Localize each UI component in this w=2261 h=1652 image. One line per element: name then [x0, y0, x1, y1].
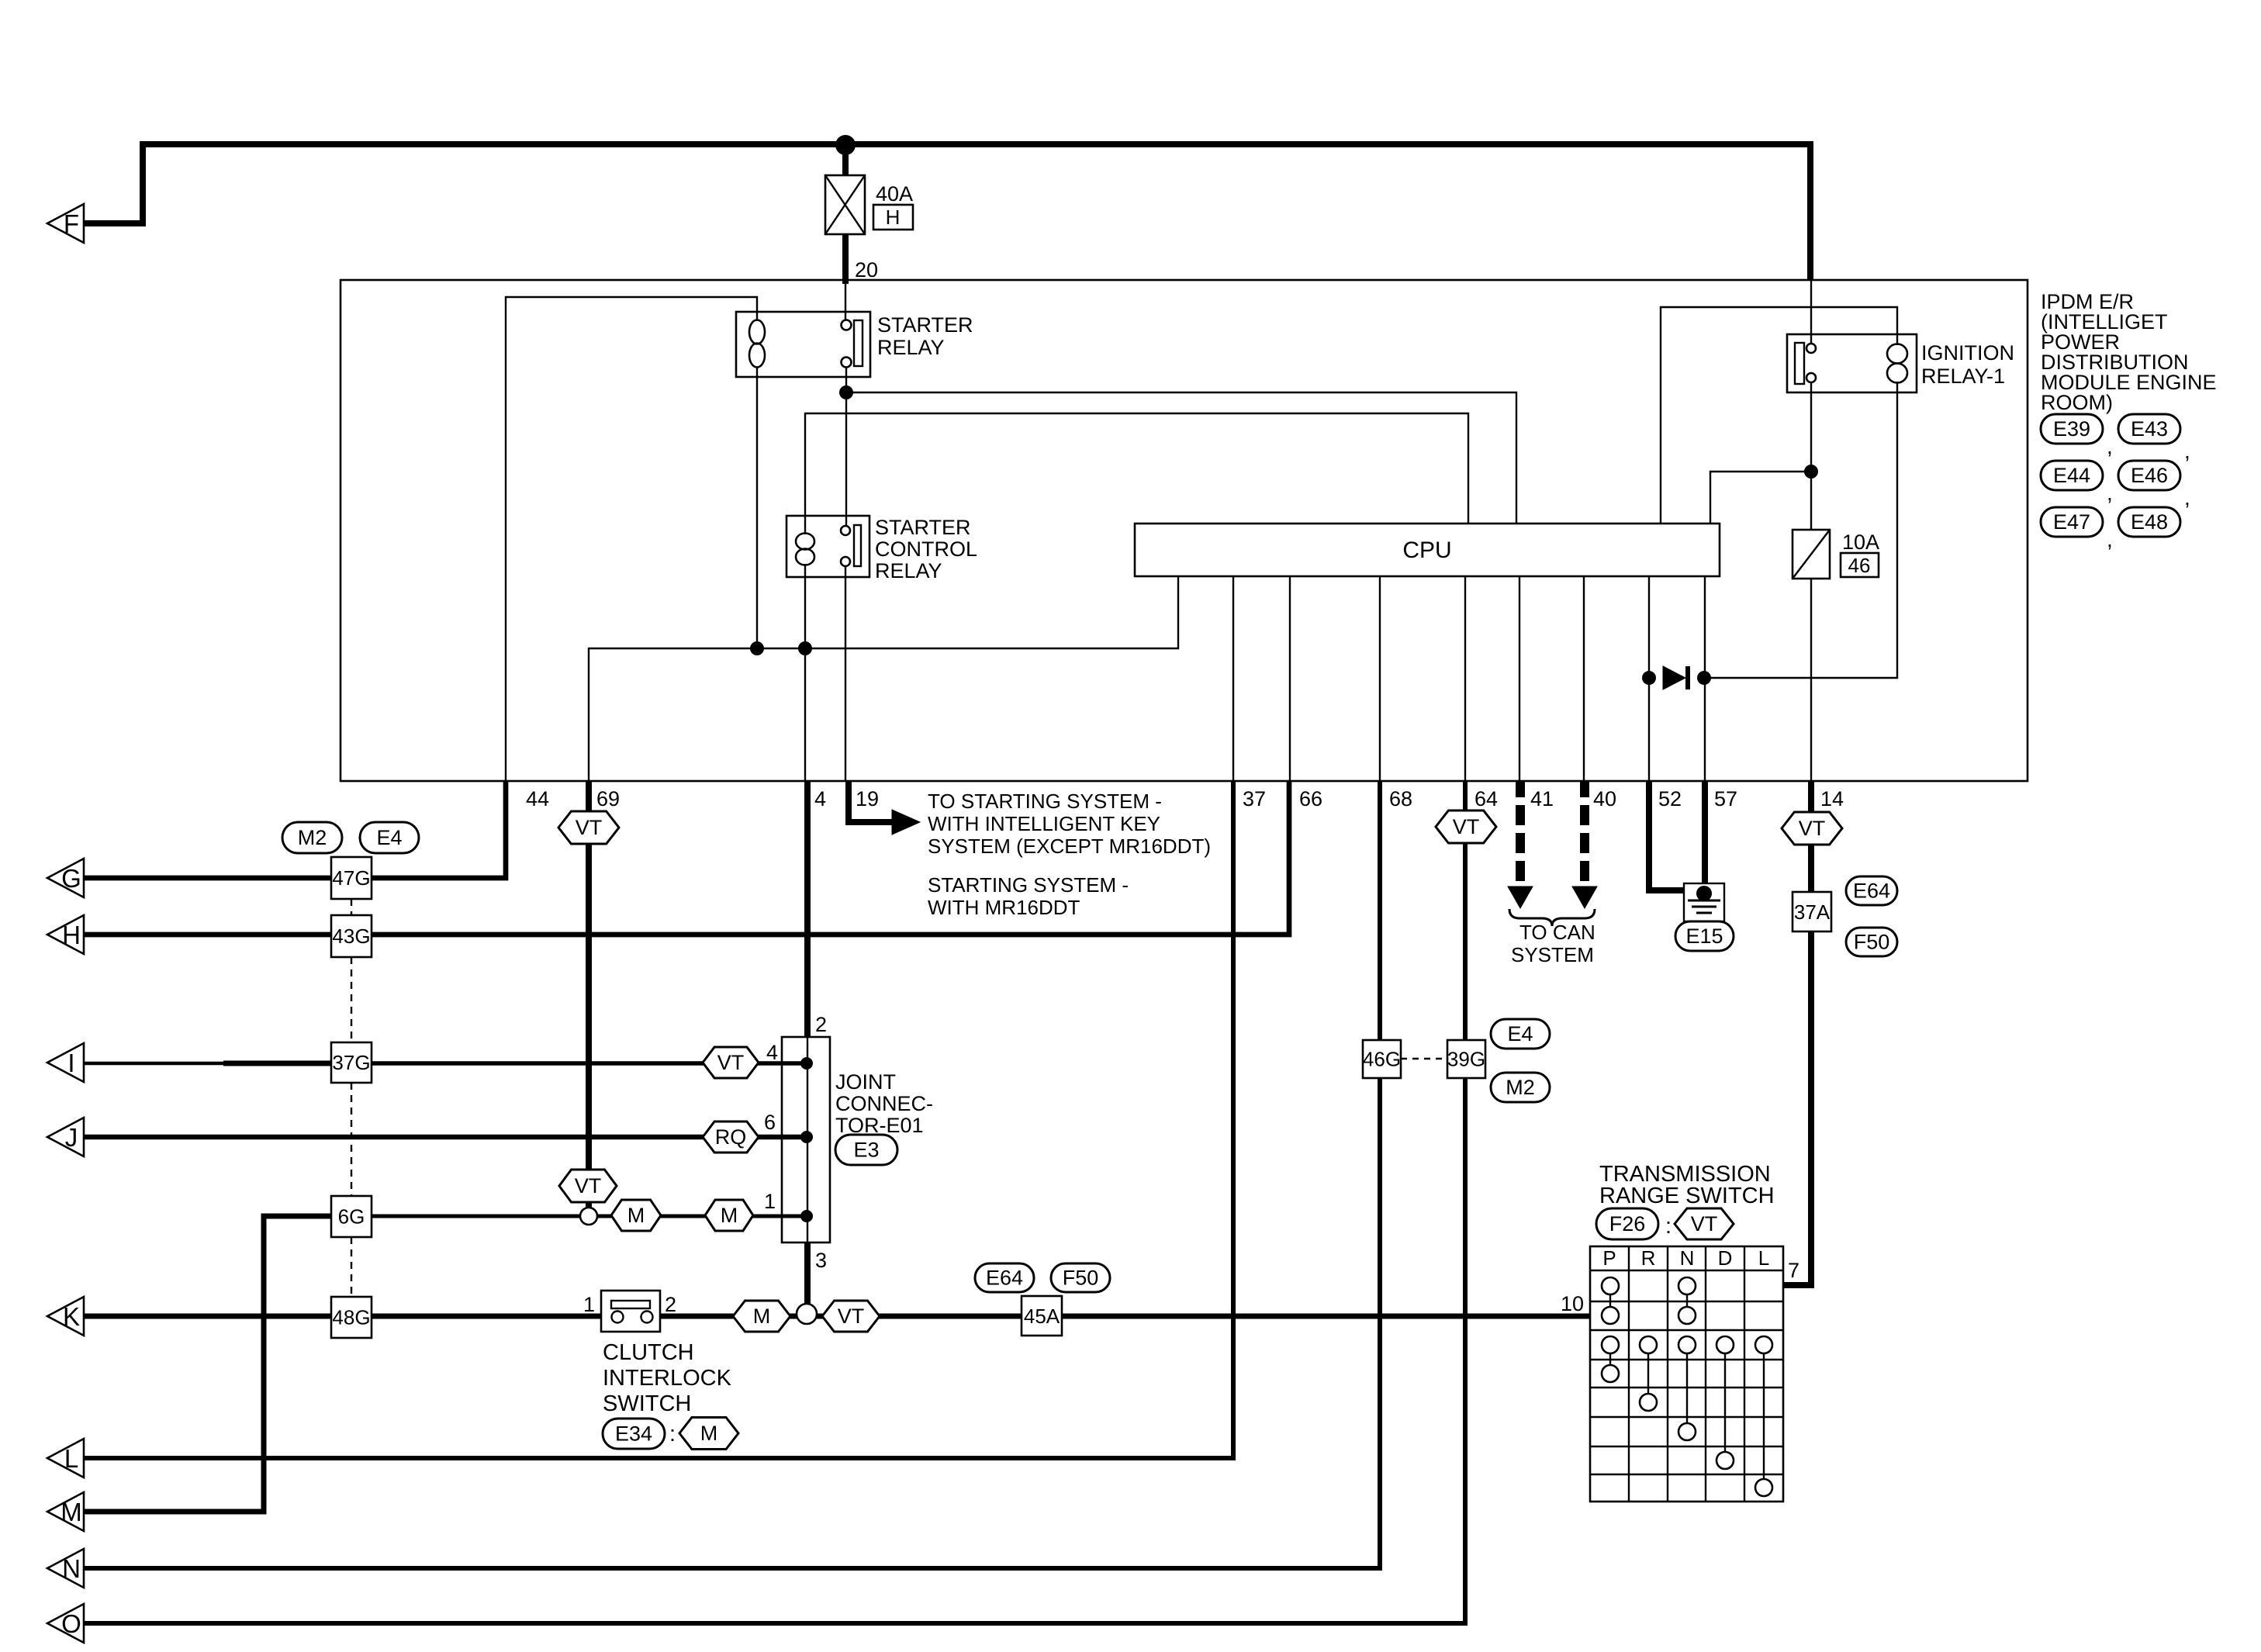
fuse 10A 46: [1793, 530, 1830, 579]
label joint connector pin 1: [764, 1190, 776, 1213]
svg-text:45A: 45A: [1024, 1305, 1060, 1328]
svg-text:STARTER: STARTER: [875, 516, 971, 539]
wire battery bus: [143, 141, 1813, 147]
wire pin 41 striped: [1516, 781, 1525, 889]
wire connector I to joint connector pin 4: [84, 1062, 807, 1066]
wire CPU pin 40 drop: [1583, 576, 1585, 781]
label clutch interlock switch: [603, 1340, 732, 1416]
wire dashed 43G-37G: [351, 957, 352, 1042]
label switch pin 7: [1788, 1259, 1799, 1282]
wire starter control relay coil to CPU: [805, 413, 1468, 534]
diode D1: [1663, 666, 1690, 689]
label starter control relay: [875, 516, 977, 582]
connector 37G: [331, 1042, 372, 1083]
svg-text:VT: VT: [1799, 817, 1826, 840]
label clutch switch pin 1: [583, 1293, 595, 1316]
fuse block 46: [1841, 553, 1879, 577]
wire pin 37 to connector L: [84, 781, 1233, 1458]
svg-text:R: R: [1641, 1246, 1656, 1270]
svg-text:39G: 39G: [1447, 1048, 1485, 1071]
wire code VT line I: [703, 1047, 759, 1078]
svg-text:L: L: [64, 1444, 78, 1473]
wire code VT pin 64: [1436, 810, 1496, 843]
ground E15 symbol: [1684, 883, 1724, 921]
svg-text:VT: VT: [838, 1305, 865, 1328]
arrow pin 41 to CAN: [1508, 886, 1533, 908]
svg-text:M: M: [721, 1204, 738, 1227]
wire pin 57 to ground: [1702, 781, 1708, 892]
label to CAN system: [1511, 921, 1595, 966]
svg-text:F50: F50: [1063, 1267, 1099, 1290]
wire dashed 46G-39G: [1401, 1058, 1447, 1059]
label grid D: [1718, 1246, 1733, 1270]
label joint connector pin 4: [766, 1041, 778, 1064]
svg-text:4: 4: [766, 1041, 778, 1064]
svg-text:7: 7: [1788, 1259, 1799, 1282]
svg-text:RQ: RQ: [715, 1125, 747, 1149]
svg-text:H: H: [62, 921, 81, 949]
label to starting system: [928, 790, 1211, 919]
svg-text:40: 40: [1593, 787, 1616, 810]
svg-text:6G: 6G: [338, 1205, 365, 1229]
label starter relay: [877, 313, 973, 359]
svg-text:TO CAN: TO CAN: [1519, 921, 1595, 944]
svg-text:E39: E39: [2053, 417, 2090, 441]
label grid N: [1680, 1246, 1695, 1270]
arrow to starting system: [892, 810, 920, 835]
connector arrow M: [47, 1492, 84, 1531]
connector arrow H: [47, 915, 84, 954]
wire ignition coil to diode: [1704, 382, 1897, 678]
wire code M line K: [733, 1301, 790, 1332]
svg-text:66: 66: [1299, 787, 1322, 810]
svg-text:SYSTEM: SYSTEM: [1511, 943, 1594, 966]
svg-text:68: 68: [1389, 787, 1412, 810]
wire code M line 6G b: [705, 1200, 753, 1231]
splice circle line 6G: [580, 1208, 597, 1225]
wire CPU to pin 69 run: [589, 576, 1178, 781]
wire dashed 47G-43G: [351, 899, 352, 915]
wire ignition node to CPU: [1710, 472, 1811, 524]
junction node coil-2: [798, 641, 812, 655]
wire fuse 10A to pin 14: [1810, 579, 1812, 781]
svg-text:41: 41: [1530, 787, 1554, 810]
svg-text:4: 4: [814, 787, 826, 810]
connector arrow J: [47, 1118, 84, 1156]
svg-text:STARTER: STARTER: [877, 313, 973, 337]
brace to CAN system: [1509, 909, 1595, 926]
svg-text:G: G: [61, 864, 81, 893]
label pin 40: [1593, 787, 1616, 810]
wire code VT above splice: [559, 1170, 617, 1202]
wire code RQ line J: [703, 1121, 759, 1153]
label clutch switch pin 2: [665, 1293, 676, 1316]
svg-text:E64: E64: [986, 1267, 1023, 1290]
svg-text:69: 69: [596, 787, 620, 810]
svg-text:VT: VT: [717, 1051, 745, 1074]
svg-text:VT: VT: [1691, 1212, 1718, 1236]
wire dashed 37G-6G: [351, 1083, 352, 1196]
svg-text:43G: 43G: [332, 924, 370, 948]
splice circle line K: [797, 1304, 817, 1324]
wire CPU pin 37 drop: [1232, 576, 1234, 781]
connector 43G: [331, 915, 372, 957]
svg-text:48G: 48G: [332, 1306, 370, 1329]
wire pin 14 to transmission range switch: [1783, 781, 1811, 1285]
connector arrow F: [47, 204, 84, 243]
svg-text:10A: 10A: [1842, 531, 1879, 554]
wire pin 52 to ground: [1649, 781, 1704, 890]
svg-text:E34: E34: [615, 1422, 652, 1446]
svg-text:47G: 47G: [332, 866, 370, 890]
transmission range switch grid: [1590, 1246, 1783, 1502]
svg-text:E43: E43: [2131, 417, 2168, 441]
label pin 68: [1389, 787, 1412, 810]
svg-text:52: 52: [1658, 787, 1682, 810]
wire node A to starter control relay contact: [845, 392, 847, 527]
label pin 52: [1658, 787, 1682, 810]
fusible link 45A: [1022, 1296, 1062, 1336]
label ignition relay-1: [1921, 341, 2014, 388]
label grid L: [1758, 1246, 1769, 1270]
svg-text:CLUTCH: CLUTCH: [603, 1340, 694, 1365]
connector arrow L: [47, 1439, 84, 1477]
wire pin 19 to starting system: [849, 781, 894, 822]
wire CPU pin 66 drop: [1289, 576, 1291, 781]
svg-text:,: ,: [2184, 439, 2190, 463]
wire starter control relay coil to node B: [804, 564, 806, 648]
svg-text:E44: E44: [2053, 464, 2090, 487]
svg-text:E64: E64: [1853, 880, 1890, 903]
svg-text:F26: F26: [1609, 1212, 1646, 1236]
svg-text:ROOM): ROOM): [2041, 391, 2113, 414]
junction node coil-1: [750, 641, 764, 655]
connector 47G: [331, 857, 372, 899]
svg-text:M2: M2: [298, 826, 327, 849]
svg-text:14: 14: [1820, 787, 1844, 810]
wire connector G to 47G: [84, 876, 334, 881]
connector oval E64 mid: [975, 1263, 1034, 1292]
junction joint connector pin1 node: [800, 1210, 813, 1222]
svg-text:M2: M2: [1506, 1076, 1535, 1099]
connector arrow G: [47, 859, 84, 897]
wire bus drop to fuse 40A: [842, 145, 849, 177]
label joint connector pin 2: [815, 1013, 827, 1036]
svg-text::: :: [1665, 1214, 1672, 1239]
wire node B to pin 4: [804, 648, 806, 781]
wire pin 4 to joint connector: [804, 781, 811, 1038]
svg-text:1: 1: [583, 1293, 595, 1316]
connector arrow I: [47, 1043, 84, 1082]
wire code M clutch switch: [679, 1418, 738, 1450]
label switch pin 10: [1561, 1292, 1584, 1315]
junction diode cathode node: [1697, 671, 1711, 685]
svg-text:RELAY-1: RELAY-1: [1921, 365, 2005, 388]
wire code M line 6G a: [611, 1200, 661, 1231]
starter relay K1: [736, 312, 870, 377]
svg-text:H: H: [886, 206, 901, 229]
connector oval E15: [1675, 921, 1734, 951]
label pin 66: [1299, 787, 1322, 810]
svg-text:M: M: [700, 1422, 718, 1445]
svg-text:SYSTEM (EXCEPT MR16DDT): SYSTEM (EXCEPT MR16DDT): [928, 835, 1211, 858]
junction ignition contact node: [1804, 465, 1818, 479]
label grid P: [1602, 1246, 1616, 1270]
wire pin 69 drop: [586, 781, 592, 1209]
svg-text:SWITCH: SWITCH: [603, 1391, 691, 1416]
switch contacts column N: [1678, 1277, 1696, 1440]
label pin 44: [526, 787, 549, 810]
arrow pin 40 to CAN: [1572, 886, 1597, 908]
connector oval E64: [1846, 876, 1897, 905]
label pin 64: [1474, 787, 1498, 810]
wire joint connector internal bus: [807, 1038, 808, 1242]
svg-text:VT: VT: [575, 1174, 602, 1198]
svg-text:CONTROL: CONTROL: [875, 537, 977, 561]
svg-text:VT: VT: [1453, 815, 1480, 838]
switch contacts column R: [1640, 1336, 1657, 1411]
svg-text:E3: E3: [853, 1139, 879, 1162]
svg-text:STARTING SYSTEM -: STARTING SYSTEM -: [928, 873, 1129, 897]
svg-text:6: 6: [764, 1111, 776, 1134]
connector oval F26: [1596, 1208, 1658, 1239]
wire dashed 6G-48G: [351, 1237, 352, 1297]
wire starter relay coil to node: [756, 367, 758, 648]
wire pin 64 to connector O: [84, 781, 1465, 1623]
starter control relay K2: [787, 516, 869, 577]
wire pin 44 to starter relay coil: [506, 297, 757, 781]
junction bus node: [835, 135, 856, 155]
connector 48G: [331, 1297, 372, 1338]
svg-text:E47: E47: [2053, 510, 2090, 534]
connector 39G: [1447, 1040, 1485, 1078]
svg-text:F: F: [64, 209, 79, 238]
svg-text:JOINT: JOINT: [835, 1070, 896, 1094]
svg-text:P: P: [1602, 1246, 1616, 1270]
svg-text:40A: 40A: [876, 182, 913, 206]
svg-text:E4: E4: [1507, 1022, 1533, 1045]
IPDM E/R box: [341, 280, 2028, 781]
svg-text:1: 1: [764, 1190, 776, 1213]
svg-text:2: 2: [815, 1013, 827, 1036]
connector oval F50: [1846, 928, 1897, 956]
svg-text:RELAY: RELAY: [877, 336, 945, 359]
wire bus drop to ignition relay: [1807, 141, 1813, 281]
junction joint connector pin4 node: [800, 1057, 813, 1070]
svg-text:INTERLOCK: INTERLOCK: [603, 1366, 732, 1391]
wire code VT line K: [822, 1301, 880, 1332]
wire joint connector pin 3 drop: [804, 1242, 811, 1306]
svg-text::: :: [669, 1422, 676, 1446]
label joint connector: [835, 1070, 933, 1137]
svg-text:64: 64: [1474, 787, 1498, 810]
connector arrow K: [47, 1297, 84, 1336]
junction joint connector pin6 node: [800, 1131, 813, 1143]
svg-text:E4: E4: [376, 826, 402, 849]
svg-text:TO STARTING SYSTEM -: TO STARTING SYSTEM -: [928, 790, 1162, 813]
svg-text:E15: E15: [1685, 924, 1723, 948]
connector oval M2 right: [1491, 1073, 1550, 1102]
connector oval E39: [2041, 414, 2113, 458]
connector oval F50 mid: [1051, 1263, 1110, 1292]
svg-text:I: I: [67, 1049, 74, 1077]
svg-text:F50: F50: [1854, 931, 1890, 954]
connector oval E44: [2041, 461, 2113, 505]
connector arrow O: [47, 1604, 84, 1643]
wire CPU pin 68 drop: [1379, 576, 1381, 781]
connector oval E47: [2041, 507, 2113, 551]
connector oval E34: [603, 1419, 665, 1449]
wire code VT F26: [1675, 1208, 1734, 1239]
label transmission range switch: [1599, 1162, 1775, 1208]
label pin 20: [855, 258, 878, 282]
svg-text:M: M: [61, 1498, 82, 1526]
connector oval E4: [360, 822, 419, 853]
svg-text:,: ,: [2184, 486, 2190, 510]
svg-text:37G: 37G: [332, 1051, 370, 1074]
fusible link 37A: [1793, 892, 1831, 931]
label pin 4: [814, 787, 826, 810]
junction diode anode node: [1642, 671, 1656, 685]
wire starter control relay contact to pin 19: [845, 565, 846, 781]
svg-text:37: 37: [1243, 787, 1266, 810]
svg-text:20: 20: [855, 258, 878, 282]
svg-text:N: N: [62, 1554, 81, 1583]
wire CPU pin 52 drop: [1648, 576, 1650, 781]
svg-text:M: M: [753, 1305, 771, 1328]
svg-text:L: L: [1758, 1246, 1769, 1270]
svg-text:CPU: CPU: [1402, 537, 1451, 563]
svg-text:57: 57: [1714, 787, 1737, 810]
fuse block H: [873, 205, 913, 230]
label pin 19: [856, 787, 879, 810]
connector arrow N: [47, 1549, 84, 1588]
switch contacts column P: [1602, 1277, 1619, 1382]
wire CPU pin 57 drop: [1704, 576, 1706, 781]
svg-text:D: D: [1718, 1246, 1733, 1270]
junction node A: [839, 385, 853, 399]
label colon F26: [1665, 1214, 1672, 1239]
wire fuse 40A to pin 20: [842, 233, 849, 284]
svg-text:,: ,: [2107, 527, 2113, 551]
wire bus to connector F: [84, 141, 143, 223]
switch contacts column L: [1755, 1336, 1772, 1496]
svg-text:19: 19: [856, 787, 879, 810]
svg-text:46: 46: [1848, 554, 1871, 577]
svg-text:IGNITION: IGNITION: [1921, 341, 2014, 365]
connector oval E48: [2118, 507, 2180, 537]
svg-text:,: ,: [2107, 434, 2113, 458]
wire pin 20 to starter relay contact: [845, 281, 846, 320]
wire connector K to transmission range switch: [84, 1314, 1590, 1319]
wire CPU to ignition relay coil: [1661, 307, 1897, 524]
wire code VT pin 69: [558, 811, 619, 844]
connector oval E3: [835, 1135, 897, 1165]
svg-text:3: 3: [815, 1249, 827, 1272]
connector 46G: [1363, 1040, 1401, 1078]
svg-text:E48: E48: [2131, 510, 2168, 534]
svg-text:O: O: [61, 1609, 81, 1638]
wire connector J to joint connector pin 6: [84, 1135, 807, 1140]
label fuse 10A: [1842, 531, 1879, 554]
label IPDM E/R: [2041, 290, 2217, 414]
svg-text:WITH MR16DDT: WITH MR16DDT: [928, 896, 1080, 919]
wire connector H 43G to pin 66: [84, 781, 1289, 935]
svg-text:WITH INTELLIGENT KEY: WITH INTELLIGENT KEY: [928, 812, 1160, 835]
wire node A to CPU: [846, 392, 1516, 524]
wire 6G to joint connector pin 1: [369, 1215, 807, 1218]
svg-text:M: M: [627, 1204, 645, 1227]
wire code VT pin 14: [1782, 812, 1842, 845]
CPU U1: [1135, 524, 1720, 576]
wire CPU pin 41 drop: [1519, 576, 1520, 781]
label pin 41: [1530, 787, 1554, 810]
connector oval E46: [2118, 461, 2190, 510]
connector oval E4 right: [1491, 1019, 1550, 1049]
wire connector M riser to 6G: [84, 1216, 334, 1512]
wire pin 68 to connector N: [84, 781, 1380, 1568]
svg-text:,: ,: [2107, 481, 2113, 505]
wire ignition relay contact to fuse 10A: [1810, 382, 1812, 530]
svg-text:K: K: [63, 1302, 80, 1331]
connector oval E43: [2118, 414, 2190, 463]
label pin 57: [1714, 787, 1737, 810]
ignition relay-1 K3: [1787, 334, 1917, 392]
svg-text:RANGE SWITCH: RANGE SWITCH: [1599, 1184, 1775, 1208]
svg-text:44: 44: [526, 787, 549, 810]
svg-text:46G: 46G: [1363, 1048, 1401, 1071]
svg-text:2: 2: [665, 1293, 676, 1316]
svg-text:E46: E46: [2131, 464, 2168, 487]
svg-text:CONNEC-: CONNEC-: [835, 1092, 933, 1115]
svg-text:RELAY: RELAY: [875, 559, 942, 582]
label joint connector pin 6: [764, 1111, 776, 1134]
clutch interlock switch S1: [601, 1291, 660, 1332]
svg-text:N: N: [1680, 1246, 1695, 1270]
svg-text:10: 10: [1561, 1292, 1584, 1315]
label colon E34: [669, 1422, 676, 1446]
label fuse 40A: [876, 182, 913, 206]
label joint connector pin 3: [815, 1249, 827, 1272]
label grid R: [1641, 1246, 1656, 1270]
label pin 37: [1243, 787, 1266, 810]
wire ignition relay contact up: [1810, 281, 1812, 344]
svg-text:VT: VT: [576, 816, 603, 839]
fuse 40A: [825, 175, 865, 234]
switch contacts column D: [1716, 1336, 1734, 1469]
joint connector E01 box: [782, 1037, 830, 1242]
wire CPU pin 64 drop: [1464, 576, 1466, 781]
connector oval M2: [282, 822, 342, 853]
svg-text:37A: 37A: [1794, 900, 1831, 924]
svg-text:J: J: [65, 1123, 78, 1152]
wire pin 47G to pin 44: [331, 781, 506, 878]
wire starter relay contact to node A: [845, 367, 847, 392]
connector 6G: [331, 1196, 372, 1237]
label pin 14: [1820, 787, 1844, 810]
label pin 69: [596, 787, 620, 810]
wire pin 40 striped: [1580, 781, 1589, 889]
